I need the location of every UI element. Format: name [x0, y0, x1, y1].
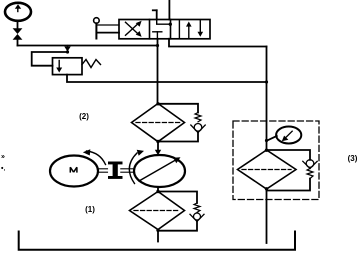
- shaft coupling bobbin: [108, 162, 123, 179]
- wire: valve port B up to image top: [168, 0, 170, 20]
- DV1 centre position blocked port T symbol: [153, 32, 162, 39]
- DV1 right position straight passage line: [178, 21, 180, 38]
- DV1 right position up arrow: [186, 22, 192, 38]
- node: gauge line junction dot: [156, 44, 159, 47]
- wire: bypass return to F2 bottom: [158, 133, 198, 142]
- node: strainer F1 bottom junction: [156, 229, 159, 232]
- wire: pump outlet down to strainer F1: [157, 187, 159, 192]
- filter F2 element dashed line: [136, 122, 180, 124]
- svg-text:(1): (1): [85, 205, 95, 214]
- svg-text:(2): (2): [79, 112, 89, 121]
- electric motor M1: [50, 156, 98, 187]
- wire: strainer bypass return bottom: [158, 222, 197, 231]
- valve actuator links to spool: [96, 24, 119, 26]
- wire: relief valve pilot line: [32, 52, 68, 66]
- filter F3 element dashed line: [242, 169, 291, 171]
- filter F2 bypass spring: [195, 113, 201, 122]
- shaft coupling pump side: [121, 169, 133, 172]
- strainer F1 element dashed line: [134, 210, 180, 212]
- svg-text:»: »: [1, 154, 5, 161]
- directional valve DV1 body: [119, 20, 210, 39]
- wire: return line into tank: [266, 189, 268, 243]
- gauge G1 internal up arrow: [15, 4, 21, 11]
- wire: filter F2 bypass loop: [158, 104, 198, 113]
- motor M1 label: [70, 167, 77, 172]
- valve actuator lever bar: [95, 23, 97, 38]
- filter F2 bypass check ball CV2: [191, 124, 205, 133]
- relief valve RV1 internal flow arrow: [56, 61, 62, 73]
- filter F2 diamond: [132, 104, 185, 142]
- wire: valve T port to right return line: [169, 39, 267, 47]
- relief valve RV1 body: [53, 58, 83, 75]
- node: relief outlet junction on return line: [265, 80, 268, 83]
- wire: right return line down to filter unit (3): [266, 47, 268, 150]
- pump P1 variable displacement arrow: [139, 157, 181, 181]
- svg-text:•.: •.: [1, 166, 5, 173]
- return filter F3 diamond: [238, 150, 297, 189]
- strainer F1 diamond: [130, 192, 185, 230]
- motor M1 rotation arrow: [83, 149, 106, 164]
- shaft coupling motor side: [98, 169, 108, 172]
- node: filter F3 top junction: [265, 149, 268, 152]
- DV1 right position down arrow: [198, 21, 204, 37]
- strainer F1 bypass spring: [194, 203, 200, 212]
- wire: gauge to shutoff valve: [17, 22, 19, 29]
- node: pilot take-off arrow on gauge line: [64, 46, 70, 53]
- pressure gauge G1 (top-left circle): [5, 3, 31, 21]
- hydraulic pump P1: [134, 155, 185, 187]
- node: filter F2 top junction: [156, 102, 159, 105]
- wire: pump pressure line valve P port down to filter F2: [157, 39, 159, 104]
- node: pilot junction dot: [66, 50, 69, 53]
- wire: valve port A stub up with tick: [153, 10, 157, 19]
- node: filter F3 bottom junction: [265, 187, 268, 190]
- strainer F1 bypass check ball CV1: [190, 213, 204, 222]
- wire: filter F2 to pump inlet with arrow: [155, 142, 161, 156]
- wire: shutoff valve down to gauge line: [17, 40, 19, 46]
- node: gauge connector junction: [265, 139, 268, 142]
- DV1 left position crossed flow arrows: [126, 21, 142, 37]
- filter F3 bypass spring: [307, 169, 313, 179]
- reservoir tank T1: [19, 232, 295, 250]
- node: elbow junction dot on divider: [169, 23, 172, 26]
- gauge G2 needle arrow: [282, 131, 292, 141]
- wire: suction line into tank: [157, 231, 159, 242]
- node: strainer F1 top junction: [156, 190, 159, 193]
- shutoff valve V1 (two solid triangles): [13, 28, 23, 40]
- valve actuator lever knob: [94, 18, 100, 24]
- filter F3 bypass check ball CV3: [303, 160, 317, 169]
- wire: strainer F1 bypass loop top: [158, 192, 197, 204]
- relief valve RV1 spring: [82, 60, 101, 68]
- return gauge G2: [276, 127, 301, 144]
- wire: relief valve outlet to tank return line: [67, 75, 267, 82]
- pump P1 rotation arc arrow: [129, 150, 144, 184]
- directional valve DV1 box divider left: [149, 20, 151, 39]
- enclosure (3) dashed box: [233, 121, 319, 200]
- wire: gauge sense line (horizontal to pump pressure line): [18, 45, 158, 47]
- wire: filter F3 bypass loop top: [267, 150, 311, 160]
- svg-text:(3): (3): [348, 154, 358, 163]
- wire: gauge G2 connector: [267, 136, 277, 141]
- node: filter F2 bottom junction: [156, 140, 159, 143]
- directional valve DV1 box divider right: [170, 20, 172, 39]
- wire: F3 bypass return bottom: [267, 179, 311, 191]
- DV1 centre position elbow passage: [157, 20, 171, 25]
